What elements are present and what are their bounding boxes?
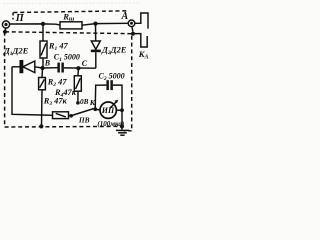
dashed shield top line <box>14 11 130 13</box>
wire node B to C1 <box>43 67 58 69</box>
svg-text:С: С <box>82 59 88 68</box>
node (junction on top rail, D2 branch) <box>93 22 97 26</box>
svg-text:А: А <box>121 11 129 22</box>
diode D2 <box>91 24 101 69</box>
wire D1 return left <box>12 67 42 115</box>
svg-text:П: П <box>15 13 25 24</box>
svg-text:С1 5000: С1 5000 <box>54 52 80 63</box>
resistor R4 <box>74 68 81 101</box>
dashed shield right side <box>131 36 133 131</box>
terminal П <box>2 21 9 31</box>
dashed shield second line <box>5 32 133 34</box>
svg-text:Д1Д2Е: Д1Д2Е <box>3 46 29 58</box>
dashed shield bottom-right corner <box>124 130 132 132</box>
node B <box>40 66 44 70</box>
faint scan ghost line <box>3 2 141 5</box>
switch contact PV <box>69 114 73 118</box>
wire pivot up to C2 branch <box>95 85 106 109</box>
resistor R3 <box>42 112 72 119</box>
resistor Rш <box>60 22 82 29</box>
node (junction on top rail, R1 branch) <box>41 22 45 26</box>
svg-text:ИП: ИП <box>101 106 115 115</box>
junction dot shield-left <box>3 30 7 34</box>
wire meter right <box>116 109 122 111</box>
node C <box>76 66 80 70</box>
svg-text:С2 5000: С2 5000 <box>99 72 125 83</box>
svg-text:R3 47к: R3 47к <box>43 97 68 108</box>
svg-text:0В: 0В <box>80 98 89 106</box>
wire C1 to corner <box>64 67 96 69</box>
terminal A <box>128 20 135 32</box>
ground <box>116 130 129 135</box>
junction meter/C2 <box>120 108 124 112</box>
capacitor C1 <box>57 63 64 73</box>
capacitor C2 <box>106 80 113 90</box>
dashed shield bottom line <box>5 125 122 128</box>
diode D1 <box>12 61 41 73</box>
dashed shield left side <box>4 32 6 127</box>
wire top rail <box>10 24 60 25</box>
meter IP <box>100 100 118 119</box>
junction dot shield-to-A <box>131 32 135 36</box>
wire pivot to meter <box>95 108 100 111</box>
switch lever K <box>71 109 93 116</box>
svg-text:R1 47: R1 47 <box>48 41 69 52</box>
resistor R2 <box>39 68 46 126</box>
junction ground/shield <box>120 124 124 128</box>
resistor R1 <box>40 24 47 67</box>
connector KA top contact <box>135 13 148 29</box>
switch pivot node <box>93 107 97 111</box>
switch contact 0V <box>76 101 80 105</box>
wire down to ground <box>121 110 123 129</box>
wire <box>82 23 128 25</box>
svg-text:R2 47: R2 47 <box>47 78 68 89</box>
svg-text:В: В <box>44 58 51 67</box>
connector KA bottom contact <box>135 34 147 47</box>
wire C2 right leg down <box>113 85 122 110</box>
svg-text:ПВ: ПВ <box>78 116 90 125</box>
junction dot R2 to shield rail <box>39 124 43 128</box>
dashed shield top-left corner drop <box>12 13 14 20</box>
svg-text:Д2Д2Е: Д2Д2Е <box>101 45 127 57</box>
